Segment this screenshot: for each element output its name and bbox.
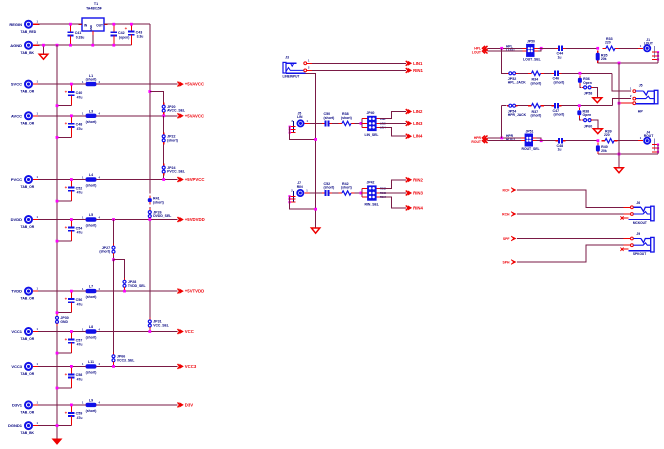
junction C56 rail [56,311,59,314]
junction C42 top [112,23,115,26]
resistor R40 [596,143,608,154]
net label RIN3 [406,190,424,195]
svg-text:(short): (short) [86,120,97,124]
svg-text:(short): (short) [324,116,335,120]
junction rail bus bottom [618,153,621,156]
junction C48 top [70,114,73,117]
svg-text:C56: C56 [76,298,83,302]
resistor R37 [528,104,544,118]
wire J1 gnd down [657,52,659,63]
svg-text:Open: Open [583,81,592,85]
wire J3 sleeve down middle gnd bus [306,73,316,228]
wire TVDD row [38,290,178,292]
svg-text:L4: L4 [89,173,93,177]
ferrite bead L4 [82,173,100,187]
junction R40 top [597,139,600,142]
svg-text:1u: 1u [558,148,562,152]
svg-text:DGND1: DGND1 [8,423,23,428]
capacitor C43 [125,24,144,45]
wire REGIN to T1 IN [38,23,82,25]
lead C42 bottom [113,39,115,45]
svg-text:Open: Open [583,113,592,117]
svg-text:GND: GND [60,320,68,324]
junction C41 bottom [69,44,72,47]
lead C40 bottom [70,99,72,106]
svg-text:TAB_OR: TAB_OR [21,121,35,125]
header JP40 [362,111,386,137]
jumper JP20 [162,103,185,115]
svg-text:SPKOUT: SPKOUT [633,252,646,256]
wire R36 to JP58 [580,85,581,87]
svg-text:JP51: JP51 [526,129,534,133]
wire C44 to R33 [565,47,597,49]
net label SPF [503,236,517,241]
resistor R42 [339,182,355,195]
wire JP24 to PVCC row [163,176,165,180]
wire JP42 out mid [380,192,406,194]
lead C41 bottom [70,39,72,45]
svg-text:TAB_RED: TAB_RED [21,30,37,34]
wire J7 gnd down [290,196,316,209]
junction JP26 DVDD [148,218,151,221]
junction JP27 branch [112,258,115,261]
junction C57 top [70,330,73,333]
svg-text:47u: 47u [77,302,83,306]
svg-text:RCF: RCF [503,188,510,192]
svg-text:TA48015F: TA48015F [86,7,102,11]
wire JP27 to branch [113,256,115,260]
junction C56 top [70,290,73,293]
wire branch to JP28 [114,260,125,278]
wire J7 signal [309,192,322,194]
wire JP40 out mid [380,122,406,124]
svg-text:(short): (short) [554,113,565,117]
net label HPR wire text [506,134,514,138]
ferrite bead L1 [82,74,100,86]
svg-text:AGND: AGND [10,43,22,48]
wire RCH to jack [517,213,631,215]
junction DVDD branch [112,218,115,221]
svg-text:+5VTVDD: +5VTVDD [185,289,204,294]
connector J18 VCC3 [11,362,39,376]
svg-text:TAB_BK: TAB_BK [21,51,35,55]
wire C48 to ground bus [57,136,71,138]
capacitor C52 [65,180,83,195]
svg-text:20k: 20k [601,149,607,153]
svg-text:(short): (short) [153,201,164,205]
wire C40 to ground bus [57,105,71,107]
svg-text:HP: HP [638,109,644,113]
wire PVCC row [38,179,178,181]
wire C57 to ground bus [57,352,71,354]
wire JP66 to VCC3 row [113,364,115,366]
junction JP42 in [360,192,363,195]
lead C59 bottom [70,420,72,426]
svg-text:AVCC_SEL: AVCC_SEL [167,109,185,113]
svg-text:LIN1: LIN1 [413,61,423,66]
capacitor C44 [555,45,565,59]
ground JP60 [593,129,602,134]
svg-text:47u: 47u [77,343,83,347]
wire AVCC row [38,115,178,117]
ground JP58 [593,98,602,103]
svg-text:L8: L8 [89,325,93,329]
capacitor C56 [65,291,83,306]
wire D3V1 row [38,404,178,406]
wire +5V bus x150 [149,24,151,193]
net label RIN1 [406,68,424,73]
wire R42 to JP42 [355,192,362,194]
svg-text:C54: C54 [76,226,83,230]
svg-text:C41: C41 [75,31,82,35]
svg-text:VCC1: VCC1 [11,329,22,334]
wire JP58 to gnd [593,87,597,97]
junction J4 gnd pin [657,151,659,153]
resistor R35 [596,50,608,63]
jumper JP27 [99,244,115,256]
wire C58 to ground bus [57,387,71,389]
net label LIN1 [406,61,423,66]
resistor R38 [339,112,355,125]
wire C47 to corner [562,105,613,107]
svg-text:AVCC: AVCC [11,113,22,118]
junction HPR branch [500,137,503,140]
ferrite bead L5 [82,213,100,227]
wire R38 to JP40 [355,122,362,124]
wire R38 to JP60 [579,118,581,120]
svg-text:+: + [65,90,68,95]
svg-text:+5VAVCC: +5VAVCC [185,113,204,118]
svg-text:GND: GND [89,25,93,31]
svg-text:HPL_JACK: HPL_JACK [508,81,526,85]
resistor R38 [577,108,591,118]
svg-text:0.33u: 0.33u [76,35,85,39]
junction C57 rail [56,352,59,355]
junction C43 top [130,23,133,26]
svg-text:(short): (short) [86,409,97,413]
svg-text:T1: T1 [94,2,98,6]
wire JP28 to TVDD row [124,290,126,291]
net label LIN2 [406,109,423,114]
svg-text:C43: C43 [136,30,143,34]
regulator T1 TA48015F [79,2,108,35]
svg-text:(short): (short) [324,185,335,189]
resistor R34 [528,71,544,85]
lead HP sleeve [619,102,633,104]
junction J4 gnd pin [657,144,659,146]
ground middle bus [311,228,319,233]
svg-text:(short): (short) [86,78,97,82]
capacitor C48 [65,116,83,131]
wire DVDD down to JP27 [113,220,115,244]
svg-text:DVDD: DVDD [11,217,22,222]
junction HPL branch [500,47,503,50]
ferrite bead L3 [82,109,100,123]
lead C57 bottom [70,347,72,354]
ferrite bead L8 [82,325,100,339]
wire JP51 merge [537,138,542,141]
wire LOUT in [488,50,523,52]
svg-text:C48: C48 [76,123,83,127]
wire R39 to J4 [618,140,642,142]
capacitor C52 [322,182,334,196]
svg-text:LOUT: LOUT [472,50,482,54]
svg-text:TAB_OR: TAB_OR [21,337,35,341]
jumper JP31 [148,318,169,330]
wire C52 to R42 [332,192,339,194]
junction J1 gnd pin [657,51,659,53]
jumper JP52 [507,72,526,85]
connector J4 ROUT [638,131,658,152]
wire +5V bus x150 lower [149,207,151,211]
junction J5 gnd pin [289,126,291,128]
connector J10 REGIN [9,20,39,34]
connector J7 RIN [290,181,310,203]
wire JP20 to AVCC row [163,115,165,116]
svg-text:SPF: SPF [503,237,510,241]
junction R38v top [578,104,581,107]
ground AGND [39,45,48,59]
svg-text:(short): (short) [531,81,542,85]
capacitor C59 [65,405,83,420]
wire VCC1 row [38,331,178,333]
wire DVDD row [38,219,178,221]
svg-text:TVDD: TVDD [11,289,22,294]
wire C54 to ground bus [57,240,71,242]
junction JP20 AVCC [162,114,165,117]
connector J13 AVCC [11,111,40,125]
header JP50 [523,40,541,62]
wire J4 gnd down [657,145,659,154]
lead C56 bottom [70,306,72,313]
wire J3 tip to LIN1 [312,62,406,64]
wire ROUT in [488,140,522,142]
ferrite bead L7 [82,285,100,299]
wire JP54 to R37 [518,105,528,107]
svg-text:(short): (short) [86,336,97,340]
wire R35 rail [598,62,658,64]
svg-text:220: 220 [604,133,610,137]
svg-text:3.3u: 3.3u [137,35,144,39]
junction bus57-unused [148,90,151,93]
svg-text:(short): (short) [167,138,178,142]
junction R35 top [596,47,599,50]
svg-text:TAB_OR: TAB_OR [21,411,35,415]
connector J16 TVDD [11,287,39,301]
jack J3 LINEINPUT [283,56,313,79]
svg-text:+5VDVDD: +5VDVDD [185,217,205,222]
net label RIN4 [406,205,424,210]
wire JP40 out top [380,112,406,119]
junction J4 gnd pin [657,147,659,149]
connector J20 DGND1 [8,421,40,435]
svg-text:RIN1: RIN1 [413,68,423,73]
wire C56 to ground bus [57,312,71,314]
wire SPH to jack [517,245,631,262]
ground DGND [52,439,63,445]
svg-text:+: + [65,372,68,377]
svg-text:RCH: RCH [502,212,510,216]
resistor R39 [602,130,618,143]
junction C58 rail [56,387,59,390]
junction J7 gnd bus [314,208,317,211]
svg-text:L9: L9 [89,399,93,403]
svg-text:TAB_OR: TAB_OR [21,225,35,229]
wire HPR in [488,137,522,139]
svg-text:RIN3: RIN3 [413,191,423,196]
jack J5 HP [630,84,658,114]
svg-text:L3: L3 [89,109,93,113]
capacitor C58 [65,366,83,381]
wire AVCC to JP22 [163,116,165,133]
svg-text:LIN4: LIN4 [413,134,423,139]
header JP42 [362,181,386,207]
wire J5 gnd down [290,127,316,140]
svg-text:L7: L7 [89,285,93,289]
svg-text:220: 220 [605,41,611,45]
wire J5 signal [310,122,323,124]
svg-text:LIN3: LIN3 [413,121,423,126]
wire HPR to HP ring [612,99,631,106]
wire ground bus x57 upper [56,45,58,315]
junction JP50 out [540,47,543,50]
wire JP42 out top [380,180,406,189]
svg-text:C57: C57 [76,338,83,342]
jumper JP26 [148,208,171,220]
wire JP50 merge [538,48,541,51]
wire T1 OUT to bus corner [104,23,150,25]
wire JP22 to JP24 [163,144,165,163]
junction J7 gnd pin [288,201,290,203]
capacitor C57 [65,332,83,347]
jumper JP66 [112,352,134,364]
jumper JP24 [162,164,185,176]
svg-text:OUT: OUT [96,24,103,28]
net label LOUT wire text [506,48,515,52]
wire C52 to ground bus [57,200,71,202]
svg-text:+: + [65,121,68,126]
svg-text:C58: C58 [76,373,83,377]
svg-text:47u: 47u [77,378,83,382]
connector J1 LOUT [638,38,658,59]
capacitor C50 [322,112,334,126]
svg-text:JP42: JP42 [367,181,375,185]
wire chain to JP66 [113,260,115,353]
lead C48 bottom [70,131,72,138]
capacitor C41 [67,24,84,39]
jumper JP54 [507,104,527,117]
svg-text:47u: 47u [77,191,83,195]
svg-text:LOUT_SEL: LOUT_SEL [523,58,541,62]
net label LIN3 [406,121,423,126]
jack J9 SPKOUT [620,232,654,256]
svg-text:DVDD_SEL: DVDD_SEL [153,214,171,218]
svg-text:47u: 47u [77,127,83,131]
wire ground bus x57 lower [56,326,58,439]
svg-text:RIN4: RIN4 [413,205,423,210]
net label HPL wire text [506,44,513,48]
wire +5V bus x150 to JP31 [149,220,151,318]
header JP51 [521,129,540,151]
wire HPL in [488,47,523,49]
jack J6 MCKOUT [620,201,654,225]
lead C54 bottom [70,235,72,242]
net label +5VPVCC [178,177,205,182]
svg-text:J9: J9 [636,232,640,236]
wire JP40 out bot [380,127,406,136]
svg-text:+: + [65,297,68,302]
junction C52 top [70,178,73,181]
wire JP50 out to C44 [538,47,555,49]
connector J11 AGND [10,41,39,55]
resistor R33 [603,37,619,50]
svg-text:1u: 1u [558,55,562,59]
wire HPR row left [502,105,507,107]
junction JP66 VCC3 [112,365,115,368]
junction JP28 TVDD [123,290,126,293]
junction J5 gnd pin [289,132,291,134]
svg-text:47u: 47u [77,95,83,99]
net label LIN4 [406,134,423,139]
junction JP24 PVCC [162,178,165,181]
junction C54 top [70,218,73,221]
junction C48 rail [56,136,59,139]
net label RCH [502,211,516,216]
svg-text:RIN: RIN [297,185,303,189]
wire C48 to R39 [565,140,598,142]
svg-text:TAB_OR: TAB_OR [21,90,35,94]
junction C40 rail [56,104,59,107]
svg-text:TAB_OR: TAB_OR [21,297,35,301]
wire R33 to J1 [619,47,642,49]
net label ROUT [471,138,487,144]
wire JP52 to R34 [518,72,528,74]
svg-text:VCC3: VCC3 [11,364,22,369]
capacitor C42 [111,24,130,39]
wire RCF to jack [517,190,631,207]
svg-text:TAB_BK: TAB_BK [21,431,35,435]
svg-text:JP40: JP40 [367,111,375,115]
junction T1 GND rail [91,44,94,47]
svg-text:C40: C40 [76,91,83,95]
jumper JP60 [582,119,594,129]
svg-text:47u: 47u [77,231,83,235]
svg-text:+: + [65,337,68,342]
svg-text:(open): (open) [119,35,129,39]
wire JP42 out bot [380,197,406,208]
junction bus57 top [56,44,59,47]
junction C41 top [69,23,72,26]
connector J17 VCC1 [11,327,39,341]
wire JP60 to gnd [593,120,598,129]
wire JP51 out to C48 [537,140,556,142]
junction J5 gnd pin [289,128,291,130]
wire HPL to HP tip [612,73,631,91]
wire R34 to C46 [544,72,552,74]
svg-text:JP58: JP58 [584,92,592,96]
svg-text:(short): (short) [86,295,97,299]
net label HPR [474,136,488,141]
svg-text:SVCC: SVCC [11,82,22,87]
junction J1 gnd pin [657,55,659,57]
junction JP51 out [540,139,543,142]
svg-text:TVDD_SEL: TVDD_SEL [128,284,146,288]
svg-text:HPR_JACK: HPR_JACK [508,113,527,117]
net label +5VDVDD [178,217,205,222]
svg-text:(short): (short) [99,250,110,254]
wire VCC3 row [38,365,178,367]
wire HPR up to jack row [501,106,503,138]
